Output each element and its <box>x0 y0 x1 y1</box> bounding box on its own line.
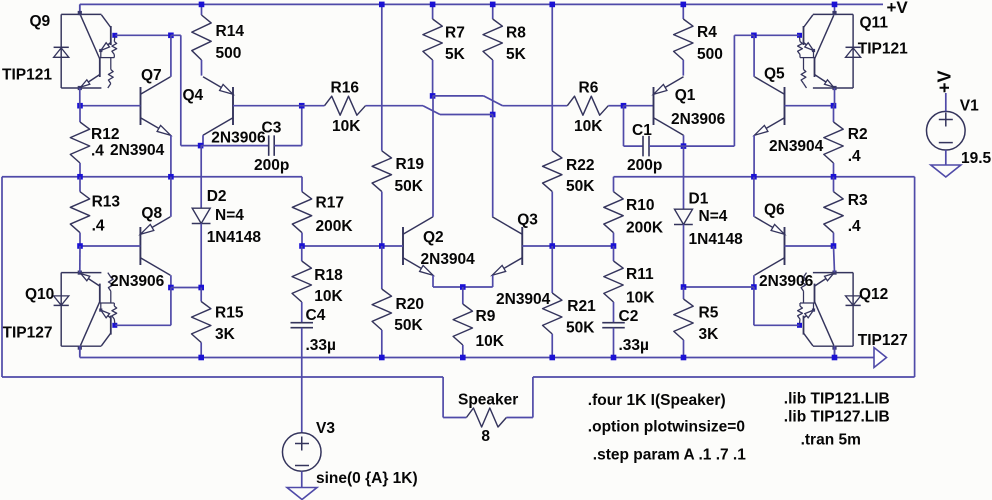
junction Q8 collector node <box>168 285 174 291</box>
junction R12 bottom <box>77 174 83 180</box>
darlington Q10 collector pin <box>79 346 81 356</box>
svg-text:.4: .4 <box>92 217 105 234</box>
wire Q6 collector vertical <box>753 275 755 287</box>
darlington Q11 outline <box>813 13 853 15</box>
junction Q7 collector node <box>168 33 174 39</box>
svg-text:.4: .4 <box>848 218 861 235</box>
svg-text:R11: R11 <box>626 266 654 283</box>
junction R22 bottom <box>549 243 555 249</box>
junction top rail R14 <box>199 2 205 8</box>
transistor Q6 bar <box>784 227 786 265</box>
junction top rail R22 column <box>549 2 555 8</box>
svg-text:Q11: Q11 <box>860 15 889 32</box>
transistor Q7 bar <box>140 87 142 125</box>
junction Q1 base node <box>621 103 627 109</box>
wire Q5 collector vertical <box>753 35 755 77</box>
svg-text:N=4: N=4 <box>699 208 728 225</box>
junction D1 bottom at R5 <box>681 284 687 290</box>
resistor R15 <box>200 288 202 302</box>
resistor R18 <box>301 246 303 261</box>
resistor R22 <box>551 150 553 152</box>
resistor R4 <box>682 4 684 19</box>
svg-text:8: 8 <box>481 428 490 445</box>
darlington Q12 emitter pin <box>832 271 836 275</box>
darlington Q12 output transistor <box>814 284 816 303</box>
junction top rail R4 <box>681 2 687 8</box>
wire Q12 collector stub <box>834 346 836 357</box>
wire riser to Q4 collector node <box>171 34 181 36</box>
transistor Q1 collector <box>654 118 684 136</box>
svg-text:R5: R5 <box>699 305 719 322</box>
svg-text:R13: R13 <box>92 193 121 210</box>
svg-text:2N3906: 2N3906 <box>110 273 165 290</box>
resistor R12 <box>79 106 81 122</box>
darlington Q11 emitter pin <box>832 86 836 90</box>
transistor Q1 bar <box>653 87 655 125</box>
junction R7 bottom <box>430 93 436 99</box>
darlington Q11 body diode <box>846 46 861 48</box>
voltage source V3 <box>301 432 303 434</box>
svg-text:500: 500 <box>216 45 242 62</box>
junction Q9 emitter node <box>77 103 83 109</box>
wire Q10 base link <box>170 288 172 326</box>
svg-text:1N4148: 1N4148 <box>207 229 262 246</box>
resistor R7 <box>432 4 434 19</box>
wire Q5 emitter vertical <box>753 135 755 177</box>
svg-text:5K: 5K <box>506 46 527 63</box>
darlington Q9 emitter pin <box>78 86 82 90</box>
resistor R17 <box>301 177 303 192</box>
darlington Q10 input transistor <box>110 316 112 335</box>
junction top rail R19 column <box>379 2 385 8</box>
resistor R16 <box>325 96 366 115</box>
wire R19 column from rail <box>381 4 383 150</box>
svg-text:+V: +V <box>887 0 909 17</box>
darlington Q10 internal resistor 1 <box>113 319 116 324</box>
wire Q10 base node <box>171 287 201 289</box>
wire Q3 emitter vertical <box>492 275 494 287</box>
svg-text:R12: R12 <box>91 126 119 143</box>
ground rail <box>80 357 874 359</box>
wire Q1 collector vertical <box>683 135 685 146</box>
darlington Q10 internal node wire <box>100 302 115 304</box>
svg-text:sine(0 {A} 1K): sine(0 {A} 1K) <box>316 470 418 487</box>
svg-text:R14: R14 <box>216 23 245 40</box>
resistor R2 <box>833 106 835 122</box>
wire V1 plus stub <box>945 93 947 111</box>
svg-text:R8: R8 <box>506 25 526 42</box>
darlington Q9 body diode <box>54 46 69 48</box>
svg-text:Q12: Q12 <box>859 286 888 303</box>
svg-text:200p: 200p <box>254 157 289 174</box>
svg-text:D1: D1 <box>689 191 709 208</box>
darlington Q12 collector pin <box>834 346 836 356</box>
darlington Q10 base pin <box>112 323 117 328</box>
junction R3 bottom <box>831 243 837 249</box>
feedback loop left border <box>1 177 3 377</box>
transistor Q8 emitter <box>140 217 170 235</box>
svg-text:R4: R4 <box>697 24 717 41</box>
svg-text:Q6: Q6 <box>764 202 785 219</box>
wire speaker leads <box>443 417 466 419</box>
svg-text:R19: R19 <box>396 156 425 173</box>
svg-text:50K: 50K <box>394 317 423 334</box>
svg-text:2N3904: 2N3904 <box>421 251 476 268</box>
transistor Q3 collector <box>492 217 522 235</box>
junction top rail Q11 <box>832 2 838 8</box>
svg-text:50K: 50K <box>395 178 424 195</box>
resistor R8 <box>492 4 494 19</box>
svg-text:.step param A .1 .7 .1: .step param A .1 .7 .1 <box>593 447 746 464</box>
svg-text:Q2: Q2 <box>423 229 444 246</box>
resistor Speaker <box>466 408 506 427</box>
svg-text:Q9: Q9 <box>30 13 51 30</box>
junction Q1 collector node <box>681 143 687 149</box>
transistor Q3 emitter <box>492 258 522 276</box>
junction ground C2 <box>611 355 617 361</box>
svg-text:200p: 200p <box>627 157 662 174</box>
transistor Q6 collector <box>755 258 785 276</box>
transistor Q8 collector <box>140 258 170 276</box>
wire Q7 collector vertical <box>170 35 172 77</box>
svg-text:N=4: N=4 <box>215 207 244 224</box>
svg-text:1N4148: 1N4148 <box>689 231 744 248</box>
junction Q6 collector node <box>751 284 757 290</box>
svg-text:Q10: Q10 <box>25 286 54 303</box>
svg-text:2N3906: 2N3906 <box>671 111 726 128</box>
voltage source V1 <box>927 111 966 150</box>
svg-text:2N3906: 2N3906 <box>759 273 814 290</box>
resistor R11 <box>613 246 615 261</box>
wire Q1 base <box>624 105 654 107</box>
darlington Q12 input transistor <box>803 316 805 335</box>
svg-text:10K: 10K <box>574 118 603 135</box>
resistor R19 <box>381 150 383 152</box>
junction Q11 emitter node <box>831 103 837 109</box>
svg-text:.33µ: .33µ <box>306 337 336 354</box>
feedback loop bottom left <box>2 376 443 378</box>
darlington Q12 internal resistor 1 <box>799 319 802 324</box>
svg-text:R21: R21 <box>567 298 596 315</box>
svg-text:R3: R3 <box>848 192 868 209</box>
darlington Q11 collector pin <box>834 4 836 14</box>
capacitor C3 <box>201 145 269 147</box>
junction Q7 emitter rail <box>168 174 174 180</box>
resistor R21 <box>551 246 553 293</box>
svg-text:C2: C2 <box>619 308 639 325</box>
resistor R6 <box>567 96 608 115</box>
transistor Q8 bar <box>139 227 141 265</box>
wire Q2 emitter vertical <box>432 275 434 287</box>
wire Q8 emitter vertical <box>170 177 172 217</box>
svg-text:V3: V3 <box>316 420 335 437</box>
capacitor C4 <box>301 302 303 323</box>
junction R9 top <box>460 284 466 290</box>
transistor Q5 bar <box>784 87 786 125</box>
junction Q5 collector node <box>751 33 757 39</box>
wire Q4 base <box>233 105 302 107</box>
svg-text:TIP121: TIP121 <box>2 67 52 84</box>
svg-text:+V: +V <box>935 70 955 93</box>
speaker rise right <box>532 377 534 418</box>
wire Q11 emitter vertical <box>834 88 836 106</box>
transistor Q6 emitter <box>755 217 785 235</box>
junction Q5 emitter rail <box>751 174 757 180</box>
resistor R13 <box>79 177 81 192</box>
resistor R9 <box>462 287 464 304</box>
svg-text:200K: 200K <box>316 218 354 235</box>
svg-text:R10: R10 <box>626 197 654 214</box>
junction R8 bottom <box>490 112 496 118</box>
transistor Q4 bar <box>232 87 234 125</box>
svg-text:R16: R16 <box>331 80 360 97</box>
wire Q7 emitter vertical <box>170 135 172 177</box>
svg-text:5K: 5K <box>445 46 466 63</box>
junction D2 bottom <box>198 285 204 291</box>
svg-text:R9: R9 <box>476 308 496 325</box>
wire R22 column from rail <box>551 4 553 150</box>
svg-text:Speaker: Speaker <box>458 392 518 409</box>
ground symbol V3 <box>287 488 317 500</box>
svg-text:R17: R17 <box>316 195 344 212</box>
darlington Q9 collector pin <box>79 4 81 14</box>
darlington Q12 body diode <box>846 304 861 306</box>
wire Q11 base <box>754 34 800 36</box>
svg-text:.lib TIP127.LIB: .lib TIP127.LIB <box>784 409 890 426</box>
junction ground R5 <box>681 355 687 361</box>
svg-text:D2: D2 <box>207 188 227 205</box>
wire Q9 base <box>115 34 171 36</box>
svg-text:R7: R7 <box>445 25 465 42</box>
wire R16 to R8 bottom <box>302 105 325 107</box>
junction ground R9 <box>460 355 466 361</box>
darlington Q9 output transistor <box>99 58 101 77</box>
capacitor C2 <box>613 302 615 323</box>
svg-text:.four 1K I(Speaker): .four 1K I(Speaker) <box>588 392 726 409</box>
junction top rail R8 <box>490 2 496 8</box>
darlington Q9 outline <box>61 13 101 15</box>
svg-text:.33µ: .33µ <box>619 337 649 354</box>
wire Q10 emitter stub <box>79 246 81 272</box>
svg-text:R15: R15 <box>215 305 244 322</box>
transistor Q4 emitter <box>203 77 233 95</box>
darlington Q12 outline <box>813 345 853 347</box>
svg-text:.4: .4 <box>91 143 104 160</box>
junction top rail R7 <box>430 2 436 8</box>
output rail left <box>2 176 302 178</box>
transistor Q7 collector <box>141 77 171 95</box>
darlington Q9 internal resistor 1 <box>113 37 116 42</box>
transistor Q2 bar <box>402 227 404 265</box>
darlington Q10 internal resistor 2 <box>110 291 112 303</box>
wire Q3 collector vertical <box>492 115 494 217</box>
wire Q6 emitter vertical <box>753 177 755 217</box>
junction R13 bottom <box>77 243 83 249</box>
wire Q2 collector vertical <box>432 96 434 217</box>
svg-text:Q5: Q5 <box>764 66 785 83</box>
resistor R14 <box>201 4 203 15</box>
darlington Q10 body diode <box>54 304 69 306</box>
darlington Q11 input transistor <box>803 26 805 45</box>
diode D2 <box>200 146 202 209</box>
darlington Q9 base pin <box>112 33 117 38</box>
svg-text:TIP127: TIP127 <box>858 332 908 349</box>
transistor Q4 collector <box>203 118 233 136</box>
svg-text:R6: R6 <box>579 80 599 97</box>
svg-text:C4: C4 <box>306 307 326 324</box>
svg-text:.option plotwinsize=0: .option plotwinsize=0 <box>588 419 745 436</box>
darlington Q12 internal resistor 2 <box>803 291 805 303</box>
wire Q7 base <box>80 105 141 107</box>
svg-text:V1: V1 <box>960 98 979 115</box>
svg-text:10K: 10K <box>476 333 505 350</box>
wire Q3 base <box>522 245 613 247</box>
darlington Q11 internal resistor 1 <box>799 37 802 42</box>
svg-text:R2: R2 <box>848 126 868 143</box>
svg-text:C1: C1 <box>632 122 652 139</box>
junction R19 bottom <box>379 243 385 249</box>
wire Q12 base node <box>684 286 754 288</box>
diode D1 <box>683 146 685 209</box>
feedback loop right border <box>914 177 916 377</box>
wire riser to Q1 collector node <box>734 34 754 36</box>
top supply rail +V <box>80 3 883 5</box>
junction ground R21 <box>549 355 555 361</box>
svg-text:2N3904: 2N3904 <box>769 138 824 155</box>
transistor Q2 emitter <box>403 258 433 276</box>
darlington Q10 outline <box>61 345 101 347</box>
junction R16 left node <box>299 103 305 109</box>
svg-text:50K: 50K <box>566 320 595 337</box>
capacitor C1 <box>624 145 644 147</box>
svg-text:200K: 200K <box>626 220 664 237</box>
svg-text:TIP121: TIP121 <box>858 41 908 58</box>
svg-text:Q8: Q8 <box>141 205 162 222</box>
svg-text:10K: 10K <box>332 118 361 135</box>
speaker drop left <box>442 377 444 418</box>
resistor R5 <box>683 287 685 299</box>
transistor Q7 emitter <box>141 118 171 136</box>
junction ground Q12 <box>832 355 838 361</box>
svg-text:19.5: 19.5 <box>961 150 992 167</box>
darlington Q11 internal node wire <box>800 57 815 59</box>
wire Q12 emitter stub <box>834 246 835 272</box>
svg-text:10K: 10K <box>314 288 343 305</box>
svg-text:3K: 3K <box>699 326 720 343</box>
wire Q2 base <box>302 245 403 247</box>
svg-text:10K: 10K <box>626 290 655 307</box>
darlington Q10 output transistor <box>99 284 101 303</box>
wire V1 minus stub <box>945 150 947 165</box>
darlington Q12 base pin <box>797 323 802 328</box>
darlington Q9 internal resistor 2 <box>110 58 112 70</box>
darlington Q9 internal node wire <box>100 57 115 59</box>
resistor R20 <box>381 246 383 289</box>
output port arrow <box>874 348 887 368</box>
darlington Q9 input transistor <box>110 26 112 45</box>
wire Q10 collector stub <box>79 346 81 357</box>
wire C3 riser <box>301 106 303 146</box>
svg-text:3K: 3K <box>215 326 236 343</box>
svg-text:C3: C3 <box>262 120 282 137</box>
resistor R10 <box>613 177 615 192</box>
svg-text:R22: R22 <box>566 157 594 174</box>
svg-text:2N3904: 2N3904 <box>496 291 551 308</box>
darlington Q11 base pin <box>797 33 802 38</box>
transistor Q5 emitter <box>755 118 785 136</box>
ground symbol V1 <box>931 165 961 177</box>
svg-text:2N3904: 2N3904 <box>110 142 165 159</box>
junction R17 bottom <box>299 243 305 249</box>
wire emitter degeneration node <box>433 286 493 288</box>
output rail right <box>614 176 915 178</box>
svg-text:2N3906: 2N3906 <box>211 130 266 147</box>
junction Q4 collector node <box>198 143 204 149</box>
junction ground R20 <box>379 355 385 361</box>
wire R6 to Q1 base node <box>608 105 623 107</box>
svg-text:.4: .4 <box>848 148 861 165</box>
svg-text:TIP127: TIP127 <box>3 325 53 342</box>
svg-text:R20: R20 <box>396 296 424 313</box>
wire Q8 collector vertical <box>170 275 172 287</box>
wire Q4 collector vertical <box>202 135 204 145</box>
svg-text:500: 500 <box>697 46 723 63</box>
svg-text:Q7: Q7 <box>141 67 162 84</box>
wire Q6 base <box>785 245 834 247</box>
feedback loop bottom right <box>533 376 915 378</box>
svg-text:Q3: Q3 <box>517 212 538 229</box>
darlington Q10 emitter pin <box>78 271 82 275</box>
svg-text:Q1: Q1 <box>675 87 696 104</box>
svg-text:50K: 50K <box>566 178 595 195</box>
svg-text:R18: R18 <box>314 267 343 284</box>
transistor Q3 bar <box>521 227 523 265</box>
junction ground R15 <box>198 355 204 361</box>
wire C1 riser <box>623 106 625 146</box>
junction R2 bottom <box>831 174 837 180</box>
darlington Q11 output transistor <box>814 58 816 77</box>
wire Q9 emitter vertical <box>79 88 81 106</box>
svg-text:.lib TIP121.LIB: .lib TIP121.LIB <box>784 391 890 408</box>
wire Q9 collector stub <box>79 4 81 15</box>
darlington Q11 internal resistor 2 <box>803 58 805 70</box>
wire Q5 base <box>785 105 834 107</box>
wire R7 bottom to R6 <box>433 95 484 97</box>
junction R10 bottom <box>611 243 617 249</box>
svg-text:.tran 5m: .tran 5m <box>801 432 861 449</box>
transistor Q1 emitter <box>654 77 684 95</box>
wire Q8 base <box>80 245 140 247</box>
resistor R3 <box>833 177 835 192</box>
wire Q12 base link <box>753 287 755 325</box>
transistor Q2 collector <box>403 217 433 235</box>
transistor Q5 collector <box>755 77 785 95</box>
darlington Q12 internal node wire <box>800 302 815 304</box>
svg-text:Q4: Q4 <box>183 87 204 104</box>
wire V3 to ground <box>301 471 303 487</box>
